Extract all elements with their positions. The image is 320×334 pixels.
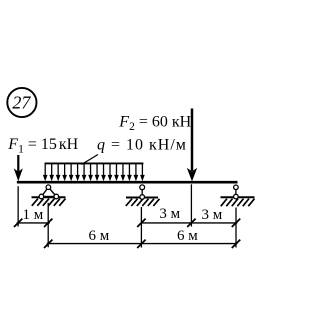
svg-text:6 м: 6 м <box>177 228 198 244</box>
svg-text:1 м: 1 м <box>23 207 44 223</box>
svg-text:q = 10 кН/м: q = 10 кН/м <box>97 137 187 154</box>
svg-text:F2 = 60 кН: F2 = 60 кН <box>118 114 191 133</box>
svg-text:27: 27 <box>12 93 31 113</box>
svg-text:3 м: 3 м <box>202 207 223 223</box>
svg-text:6 м: 6 м <box>89 228 110 244</box>
svg-text:F1 = 15кН: F1 = 15кН <box>7 136 78 155</box>
svg-text:3 м: 3 м <box>159 206 180 222</box>
